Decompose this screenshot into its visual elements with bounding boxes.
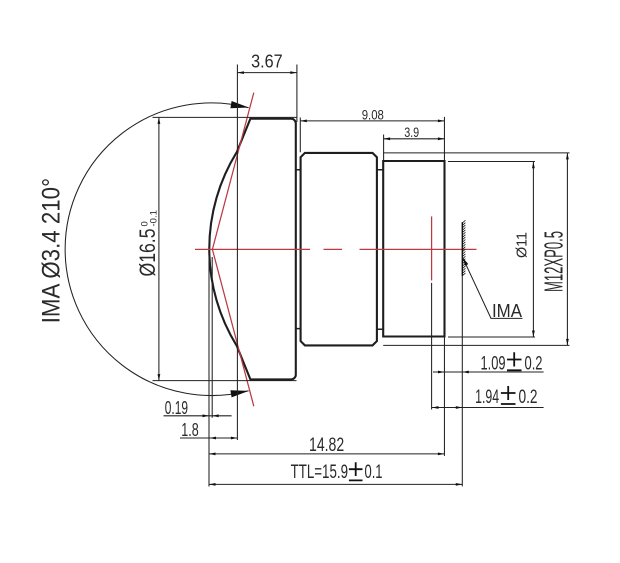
dimension dia 11 vertical (515, 162, 535, 337)
red crosshair at rear lens vertex (431, 216, 433, 280)
FOV arc arrowhead bottom (230, 390, 248, 397)
red dashed optical centerline (195, 248, 477, 250)
FOV arc arrowhead top (230, 101, 248, 108)
IMA leader and label (463, 258, 523, 321)
svg-text:1.94: 1.94 (475, 387, 499, 408)
svg-text:3.67: 3.67 (251, 51, 283, 71)
svg-text:Ø11: Ø11 (515, 232, 531, 258)
svg-text:3.9: 3.9 (404, 125, 419, 140)
IMA image plane hatched line (462, 220, 465, 276)
extension lines (153, 65, 536, 487)
svg-text:0.19: 0.19 (165, 398, 188, 418)
svg-text:1.09: 1.09 (481, 354, 506, 375)
svg-text:IMA Ø3.4 210°: IMA Ø3.4 210° (37, 178, 65, 323)
rear threaded barrel body Ø11 (383, 161, 444, 337)
svg-text:0.2: 0.2 (525, 354, 543, 375)
svg-text:0.2: 0.2 (519, 387, 538, 408)
dimension 1.8 (180, 420, 237, 440)
210 deg FOV arc (65, 103, 248, 396)
lens front barrel body Ø16.5 with dome element (209, 119, 296, 380)
svg-text:-0.1: -0.1 (148, 210, 159, 226)
svg-text:1.8: 1.8 (181, 420, 198, 440)
dimension 1.94 +/-0.2 (432, 386, 544, 409)
rotated label IMA dia3.4 210deg (37, 178, 65, 323)
dimension dia 16.5 vertical (135, 117, 160, 380)
svg-text:9.08: 9.08 (362, 107, 384, 122)
middle barrel ring body (301, 153, 377, 346)
groove between body2 and rear threaded body (377, 170, 383, 329)
svg-text:Ø16.5: Ø16.5 (135, 229, 160, 277)
svg-text:14.82: 14.82 (309, 435, 344, 456)
groove between body1 and body2 (296, 170, 301, 329)
svg-text:IMA: IMA (492, 301, 522, 321)
dimension 1.09 +/-0.2 (433, 352, 544, 374)
dimension M12XP0.5 vertical (539, 153, 569, 346)
svg-text:M12XP0.5: M12XP0.5 (539, 231, 569, 292)
svg-text:0.1: 0.1 (365, 462, 383, 483)
dimension 9.08 (300, 107, 444, 122)
svg-text:TTL=15.9: TTL=15.9 (291, 462, 348, 483)
dimension 0.19 (164, 398, 232, 418)
dimension 3.67 (237, 51, 296, 74)
dimension 3.9 (384, 125, 445, 140)
dimension 14.82 (209, 435, 444, 456)
thread crest thin lines (M12 major dia) + M12 dim extension lines (383, 153, 569, 346)
red 105-deg field rays crossing at entrance pupil (212, 93, 253, 407)
dimension TTL=15.9 +/-0.1 (209, 462, 462, 486)
